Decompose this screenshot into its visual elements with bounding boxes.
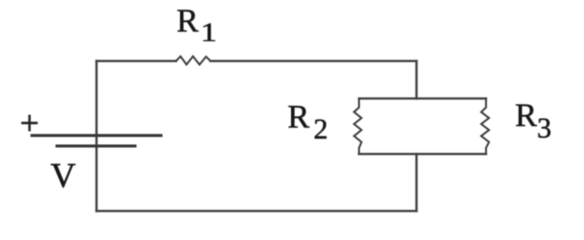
wire R1 to top-right corner <box>211 60 417 62</box>
resistor R2 <box>354 99 362 155</box>
svg-text:R: R <box>515 98 537 134</box>
label R3 <box>515 98 552 145</box>
wire bottom <box>97 210 417 212</box>
svg-text:2: 2 <box>314 115 329 146</box>
svg-text:R: R <box>288 100 310 136</box>
battery V negative plate <box>57 145 135 148</box>
wire parallel box bottom <box>359 153 486 155</box>
wire parallel box top <box>359 97 486 99</box>
svg-text:3: 3 <box>537 114 552 145</box>
wire left branch vertical <box>95 61 97 211</box>
label R1 <box>177 4 218 48</box>
label R2 <box>288 100 329 146</box>
svg-text:R: R <box>177 4 199 40</box>
wire right branch upper <box>415 61 417 99</box>
plus sign <box>23 116 37 130</box>
svg-text:1: 1 <box>201 18 218 47</box>
wire top-left to R1 <box>97 60 177 62</box>
resistor R3 <box>481 99 489 155</box>
svg-text:V: V <box>51 156 76 195</box>
wire right branch lower <box>415 154 417 211</box>
battery V positive plate <box>32 134 161 137</box>
resistor R1 <box>176 56 211 64</box>
